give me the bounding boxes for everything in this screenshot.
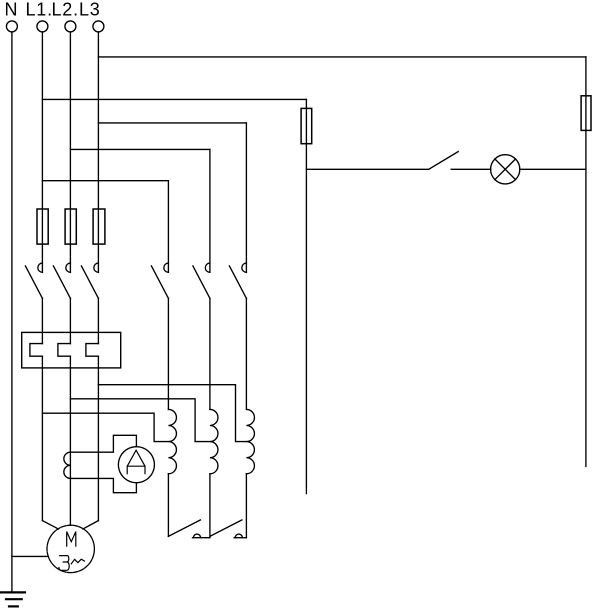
wire L3 tap to top bus xyxy=(98,56,586,58)
wire branch 2 contact to winding xyxy=(209,298,211,409)
motor label M xyxy=(67,532,76,547)
wire L1 lead into motor xyxy=(42,521,58,529)
thermal relay FR box xyxy=(22,332,121,368)
wire N to motor xyxy=(12,555,49,557)
wire L1 tap to branch 1 xyxy=(42,180,168,182)
autotransformer winding T1 xyxy=(168,409,176,473)
wire branch 3 winding to contact xyxy=(245,474,247,538)
wire L2 tap to branch 2 xyxy=(70,148,210,150)
wire T2 tap to line L2 xyxy=(70,399,210,442)
breaker QF pole 1 blade xyxy=(25,266,42,299)
lamp HL cross xyxy=(495,159,516,180)
breaker QF pole 3 fixed contact arc xyxy=(94,263,99,272)
svg-text:N: N xyxy=(5,0,19,20)
terminal L3 xyxy=(93,21,104,32)
star contact K2 fixed contact arc xyxy=(235,534,242,538)
fuse FU4 xyxy=(301,108,312,143)
wire T3 tap to line L3 xyxy=(98,385,246,442)
breaker QF pole 1 fixed contact arc xyxy=(38,263,43,272)
wire lamp line left xyxy=(306,168,428,170)
breaker QF pole 3 blade xyxy=(81,266,98,299)
wire branch 3 upper vertical xyxy=(245,123,247,272)
current transformer TA xyxy=(64,452,71,478)
wire branch 1 upper vertical xyxy=(167,181,169,272)
ammeter PA xyxy=(118,447,154,483)
FR heater element 3 xyxy=(86,344,99,357)
wire L3 heater to motor xyxy=(97,356,99,520)
wire L1 contact to heater xyxy=(41,298,43,343)
motor label tilde xyxy=(71,559,84,564)
wire N vertical xyxy=(11,32,13,592)
wire branch 1 winding to contact xyxy=(167,474,169,537)
wire TA to ammeter bottom xyxy=(70,478,136,492)
FR heater element 1 xyxy=(30,344,43,357)
star contact K2 blade xyxy=(210,520,242,537)
contactor KM1 blade xyxy=(151,266,168,299)
fuse FU2 xyxy=(65,209,76,244)
wire TA to ammeter top xyxy=(70,435,136,452)
star contact K2 fixed contact stub xyxy=(234,537,246,539)
wire L1 heater to motor xyxy=(41,356,43,520)
wire right vertical xyxy=(585,57,587,467)
wire L2 heater to CT xyxy=(69,356,71,525)
wire L2 terminal to contact xyxy=(69,32,71,272)
contactor KM3 fixed contact arc xyxy=(242,263,247,272)
fuse FU5 xyxy=(581,96,591,131)
svg-text:L1.: L1. xyxy=(26,0,53,20)
wire branch 2 upper vertical xyxy=(209,149,211,272)
star contact K1 fixed contact arc xyxy=(193,534,200,538)
wire L1 terminal to contact xyxy=(41,32,43,272)
breaker QF pole 2 blade xyxy=(53,266,70,299)
breaker QF pole 2 fixed contact arc xyxy=(66,263,71,272)
terminal N xyxy=(6,21,17,32)
autotransformer winding T2 xyxy=(210,409,218,473)
wire branch 1 contact to winding xyxy=(167,298,169,409)
contactor KM2 fixed contact arc xyxy=(205,263,210,272)
contactor KM1 fixed contact arc xyxy=(164,263,169,272)
switch SA blade xyxy=(429,152,459,170)
svg-text:L2.: L2. xyxy=(52,0,79,20)
wire L3 contact to heater xyxy=(97,298,99,343)
wire branch 3 contact to winding xyxy=(245,298,247,409)
motor M1 xyxy=(47,525,94,572)
wire L1 tap to control fuse xyxy=(42,98,306,100)
ground xyxy=(0,592,25,606)
motor label 3 xyxy=(59,556,69,571)
fuse FU3 xyxy=(93,209,105,244)
contactor KM3 blade xyxy=(229,266,246,299)
wire control vertical xyxy=(305,99,307,493)
wire L3 terminal to contact xyxy=(97,32,99,272)
wire lamp line right xyxy=(520,168,586,170)
wire L3 tap to branch 3 xyxy=(98,122,246,124)
wire branch 2 winding to contact xyxy=(209,474,211,538)
wire T1 tap to line L1 xyxy=(42,413,168,441)
star contact K1 blade xyxy=(168,520,200,537)
contactor KM2 blade xyxy=(193,266,210,299)
autotransformer winding T3 xyxy=(246,409,254,473)
svg-text:L3: L3 xyxy=(79,0,101,20)
lamp HL xyxy=(491,155,520,184)
wire lamp line middle xyxy=(451,168,490,170)
star contact K1 fixed contact stub xyxy=(193,537,210,539)
wire L2 contact to heater xyxy=(69,298,71,343)
terminal L2 xyxy=(65,21,76,32)
fuse FU1 xyxy=(37,209,48,244)
ammeter PA letter A xyxy=(127,450,145,473)
FR heater element 2 xyxy=(58,344,71,357)
terminal L1 xyxy=(37,21,48,32)
wire L3 lead into motor xyxy=(83,521,99,529)
